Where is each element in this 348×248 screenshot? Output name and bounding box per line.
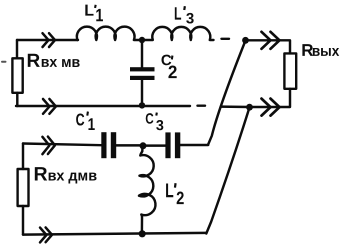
svg-text:вых: вых — [312, 43, 340, 60]
resistor Rвх дмв — [18, 169, 29, 206]
label L'3 — [174, 4, 194, 28]
label C'1 — [76, 110, 96, 134]
wire: DMV input left vertical top lead — [22, 144, 24, 170]
inductor L'3 — [142, 27, 214, 40]
svg-text:R: R — [33, 164, 47, 186]
svg-text:3: 3 — [156, 118, 164, 134]
wire: C'3 to switch arm — [180, 144, 208, 146]
wire: MV bottom horizontal — [16, 105, 190, 107]
wire: C'1 to node E — [116, 144, 143, 146]
svg-text:2: 2 — [176, 188, 184, 208]
svg-text:L: L — [165, 180, 174, 202]
arrow chevrons on DMV top wire — [42, 137, 55, 155]
wire: switch node to Rвых top — [246, 40, 291, 53]
wire: DMV top horizontal to C'1 — [23, 144, 101, 146]
node D: C'2 tap on MV bottom wire — [139, 102, 145, 108]
svg-text:3: 3 — [186, 10, 194, 27]
node F: L'2 to DMV bottom wire — [139, 230, 146, 237]
wire: switch arm diagonal DMV bottom to node C — [206, 107, 249, 233]
wire: MV input left vertical bottom lead — [16, 93, 18, 106]
svg-text:L: L — [174, 4, 182, 24]
wire: MV top horizontal (input to L'1) — [17, 39, 78, 41]
label C'3 — [145, 111, 164, 135]
capacitor C'2 plates — [130, 67, 155, 71]
label Rвх мв — [27, 51, 81, 72]
label L'2 — [165, 180, 184, 208]
svg-text:вх мв: вх мв — [41, 54, 81, 71]
node C: MV/DMV switch node bottom — [246, 104, 253, 111]
label L'1 — [84, 3, 103, 26]
wire: switch arm diagonal DMV top to node B — [208, 41, 245, 145]
capacitor C'2 bottom lead — [141, 80, 143, 105]
resistor Rвх мв — [12, 58, 22, 93]
wire: Rвых bottom lead to lower output wire — [250, 89, 291, 107]
resistor Rвых — [284, 53, 296, 88]
left edge scan artifact — [2, 61, 6, 63]
wire: dashed segment before switch node (top) — [222, 38, 230, 40]
svg-text:R: R — [27, 51, 41, 72]
svg-text:L: L — [84, 3, 94, 20]
node A: junction L'1/L'3/C'2 — [139, 37, 145, 43]
inductor L'2 — [139, 146, 155, 232]
svg-text:C: C — [145, 111, 154, 128]
wire: segment between dash and switch node C — [221, 105, 250, 108]
svg-text:вх дмв: вх дмв — [48, 168, 98, 185]
arrow chevrons on output top wire — [262, 32, 280, 49]
svg-text:C: C — [76, 110, 85, 129]
inductor L'1 — [77, 27, 139, 40]
svg-text:1: 1 — [95, 5, 103, 25]
label C'2 — [161, 52, 178, 82]
label Rвых — [301, 41, 340, 60]
arrow chevrons on DMV bottom wire — [40, 227, 52, 242]
arrow chevrons on output bottom wire — [262, 99, 280, 116]
wire: DMV input left vertical bottom lead — [22, 206, 24, 235]
wire: node E to C'3 — [143, 144, 165, 146]
svg-text:2: 2 — [168, 62, 178, 82]
node B: MV/DMV switch node top — [242, 37, 249, 44]
capacitor C'3 plates — [165, 132, 170, 158]
label Rвх дмв — [33, 164, 97, 186]
arrow chevrons on MV bottom wire — [43, 99, 56, 114]
capacitor C'1 plates — [101, 132, 106, 158]
svg-text:1: 1 — [88, 115, 96, 134]
wire: dashed segment before switch node (middle) — [198, 104, 206, 106]
arrow chevrons on MV top wire — [43, 33, 56, 47]
capacitor C'2 top lead — [141, 40, 143, 67]
wire: MV input left vertical top lead — [16, 40, 18, 58]
node E: junction C'1/C'3/L'2 — [140, 142, 147, 149]
wire: DMV bottom horizontal — [23, 233, 206, 235]
